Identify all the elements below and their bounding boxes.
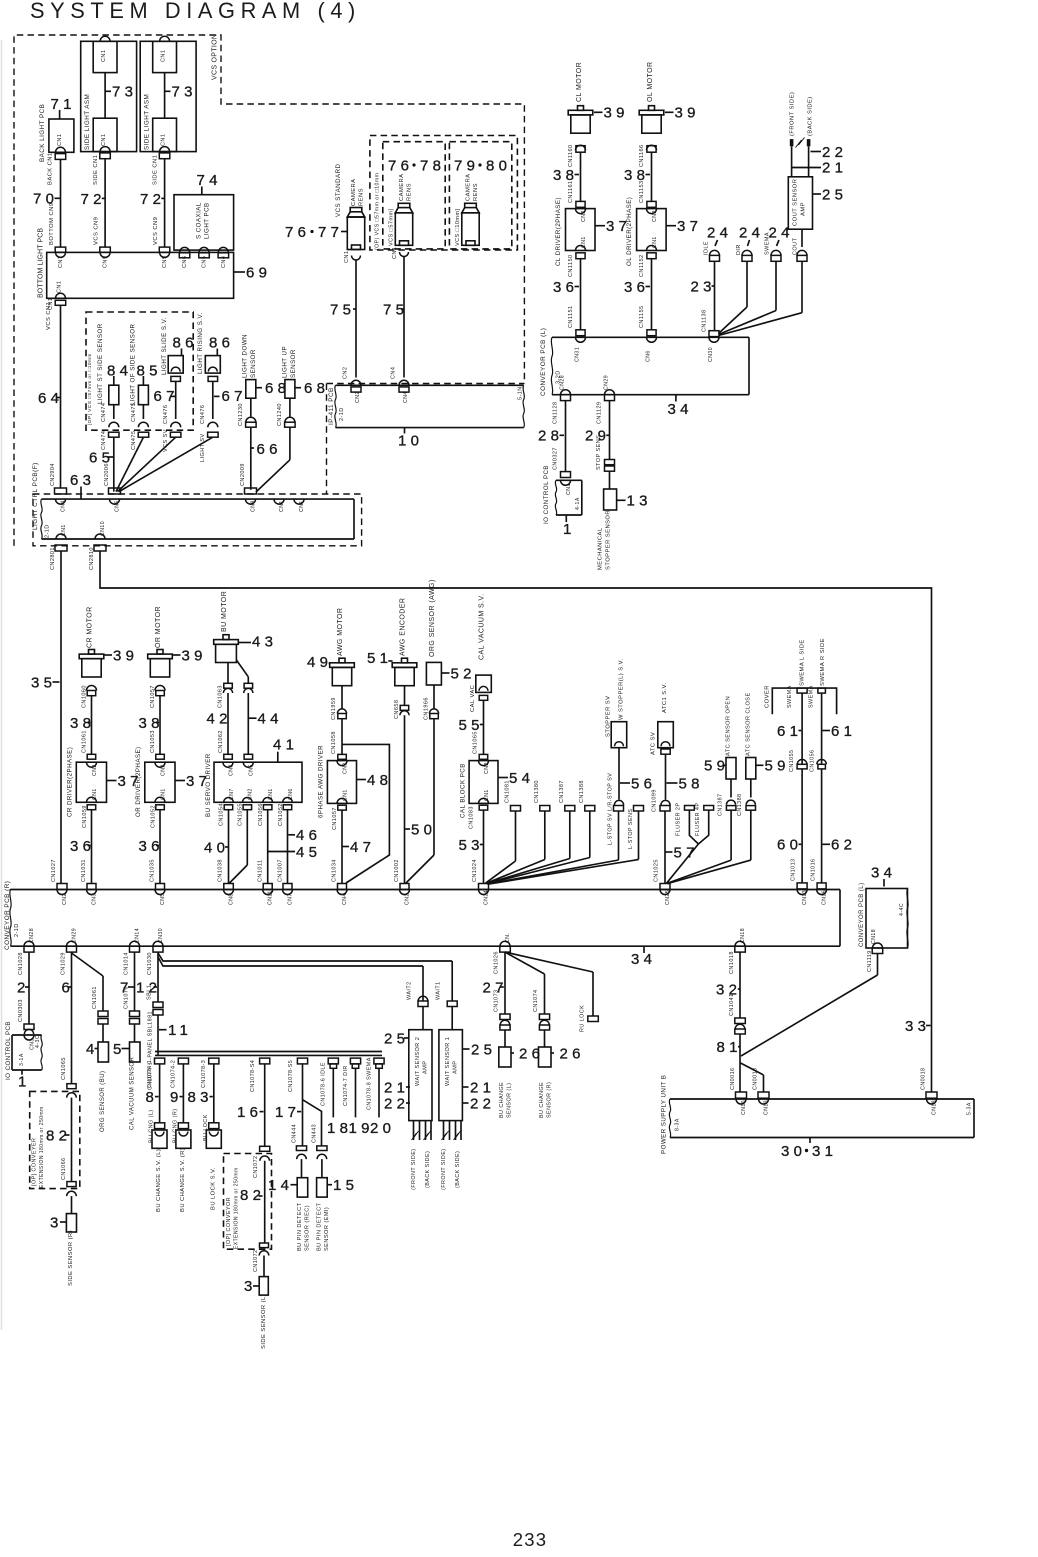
svg-text:CAL VACUUM SENSOR: CAL VACUUM SENSOR [130,1056,136,1130]
svg-text:(BACK SIDE): (BACK SIDE) [425,1151,431,1188]
svg-text:24: 24 [739,224,764,241]
wire CN30 down to SBL connector [157,952,159,1002]
svg-text:RENS: RENS [473,183,479,201]
dashed box cameras option [370,136,518,251]
dashed vertical to light ctrl box [326,384,328,495]
wire cal vacuum to cal block [483,700,485,754]
svg-text:ORG SENSOR (AWG): ORG SENSOR (AWG) [429,579,436,657]
wire camera2 to IP-411 [403,257,405,378]
connector CN1153 [647,201,656,207]
svg-text:CN5: CN5 [114,500,120,512]
svg-text:CN1054: CN1054 [219,803,225,826]
connector CN1057b [338,805,347,810]
svg-text:(FRONT SIDE): (FRONT SIDE) [411,1148,417,1190]
svg-text:73: 73 [112,84,137,101]
svg-text:CONVEYOR PCB (R): CONVEYOR PCB (R) [4,881,11,950]
svg-text:3: 3 [50,1214,63,1231]
svg-text:2-1D: 2-1D [45,524,51,538]
svg-text:55: 55 [459,717,484,734]
svg-text:L-STOP SENS: L-STOP SENS [628,809,634,849]
svg-text:CN475: CN475 [131,403,137,422]
svg-text:CN0018: CN0018 [920,1068,926,1090]
svg-text:11: 11 [168,1022,192,1039]
dashed box around LIGHT CTRL PCB [33,494,362,546]
svg-text:CN5: CN5 [160,893,166,905]
wire S4 down to CN1072 [264,1064,266,1146]
svg-text:CN474: CN474 [101,403,107,422]
BU SERVO DRIVER box [223,762,233,767]
side light asm box 1 [81,41,137,151]
WAIT SENSOR 2 AMP box [409,1030,432,1121]
svg-text:CN2: CN2 [652,210,658,222]
wires BU servo to conveyor [228,810,230,884]
svg-text:BOTTOM LIGHT PCB: BOTTOM LIGHT PCB [38,228,45,298]
svg-text:CN7: CN7 [229,788,235,800]
svg-text:26: 26 [560,1045,585,1062]
6PHASE AWG DRIVER box [337,761,347,766]
svg-text:CN1053: CN1053 [150,730,156,753]
svg-text:CN1: CN1 [57,134,63,146]
svg-text:53: 53 [459,837,484,854]
wire bus to WAIT1 [451,961,453,1001]
svg-text:WAIT SENSOR 1: WAIT SENSOR 1 [445,1037,451,1086]
light rising sv 86 [205,356,220,374]
svg-text:233: 233 [513,1529,547,1550]
svg-text:1: 1 [563,521,576,538]
svg-text:CN1072: CN1072 [253,1250,259,1272]
IO control pcb box (lower) [41,1035,42,1070]
svg-text:76: 76 [388,157,413,174]
svg-text:CN4: CN4 [403,391,409,403]
connector CN1027 on conveyor [57,884,67,890]
svg-text:CN1028: CN1028 [18,952,24,975]
connector CN2006 [109,488,121,494]
svg-text:[OP] CONVEYER: [OP] CONVEYER [31,1138,37,1186]
svg-text:59: 59 [765,758,790,775]
svg-text:2: 2 [17,979,30,996]
wire CN1018 to CN1041 [739,952,741,1018]
connector CN1160 [576,145,586,150]
svg-text:BU PIN DETECT: BU PIN DETECT [297,1202,303,1251]
svg-text:44: 44 [258,711,283,728]
svg-text:CN2: CN2 [404,893,410,905]
bu change sensor R 26 [539,1047,552,1067]
svg-text:CN1041: CN1041 [729,994,735,1016]
svg-text:CN2: CN2 [581,210,587,222]
svg-text:(FRONT SIDE): (FRONT SIDE) [790,92,796,136]
svg-text:4: 4 [86,1041,99,1058]
svg-text:CAMERA: CAMERA [399,173,405,201]
cout sensor tips [790,139,794,146]
svg-text:(BACK SIDE): (BACK SIDE) [808,96,814,136]
wait sensor 1 leads [443,1121,445,1140]
svg-text:2-1D: 2-1D [339,407,345,421]
svg-text:85: 85 [137,363,162,380]
WAIT SENSOR 1 AMP box [439,1030,463,1121]
dashed box conveyor extension 1 [30,1091,80,1188]
svg-text:41: 41 [273,736,298,753]
wire idle to CN1138 [714,261,716,330]
svg-text:CR MOTOR: CR MOTOR [87,606,94,648]
svg-text:SENSOR (REC): SENSOR (REC) [305,1205,311,1251]
wire to bu change sensor R [544,1030,546,1047]
svg-text:73: 73 [172,84,197,101]
svg-text:WAIT2: WAIT2 [406,981,412,1000]
svg-text:CN1002: CN1002 [394,859,400,882]
svg-text:CN.: CN. [505,933,511,943]
svg-text:CN1076: CN1076 [124,986,130,1009]
connector CN10 bottom light ctrl [95,534,105,539]
svg-text:IO CONTROL PCB: IO CONTROL PCB [5,1021,12,1080]
diagonal CN1026 to RU LOCK [505,952,593,972]
bus wires from CN30 to wait sensors [158,953,452,961]
svg-text:CN1966: CN1966 [424,697,430,720]
zigzag sensor tips wait [412,1131,419,1140]
svg-text:CAL VAC: CAL VAC [470,685,476,712]
connector CN18 conveyor R bottom [735,941,745,946]
svg-text:25: 25 [384,1030,409,1047]
OL driver box [647,209,657,214]
connector CN1074-3 [209,1058,219,1064]
connector CN1056 swema R [817,760,827,765]
callout 1 (lower io) [21,1070,23,1075]
connector CN1013 [797,883,807,889]
wire CN1128 to IO control pcb [565,401,567,472]
svg-text:CN7: CN7 [58,256,64,268]
svg-text:CN1052: CN1052 [278,803,284,826]
svg-text:38: 38 [139,715,164,732]
wire AWG motor to driver [341,719,343,755]
svg-text:CN1058: CN1058 [331,731,337,754]
wire inside extension 2 [264,1161,266,1243]
svg-text:BU PIN DETECT: BU PIN DETECT [317,1202,323,1251]
wire SBL to bus [157,1015,159,1055]
connector CN1152 [647,253,656,259]
svg-text:33: 33 [905,1018,930,1035]
hanging connector CN1388 [585,806,595,812]
wire cout up to amp [801,229,803,247]
wire CN1014 down [134,952,136,1011]
svg-text:RENS: RENS [359,188,365,206]
svg-text:36: 36 [624,279,649,296]
svg-text:LIGHT ST SIDE SENSOR: LIGHT ST SIDE SENSOR [97,323,104,404]
svg-text:CN29: CN29 [71,928,77,943]
svg-text:CN1025: CN1025 [654,859,660,882]
svg-text:CN1081: CN1081 [505,780,511,803]
svg-text:(FRONT SIDE): (FRONT SIDE) [441,1148,447,1190]
svg-text:CN1078-S4: CN1078-S4 [250,1060,256,1092]
svg-text:CN1959: CN1959 [331,697,337,720]
svg-text:W STOPPER(L) S.V.: W STOPPER(L) S.V. [619,659,625,720]
connector CN1074-1 [155,1058,165,1064]
svg-text:CN2: CN2 [342,762,348,774]
atc sv solenoid 58 [658,722,674,748]
wire motor to driver [91,696,93,755]
wire to side sensor R [71,1196,73,1214]
svg-text:CN31: CN31 [574,347,580,362]
svg-text:CN28: CN28 [29,928,35,943]
svg-text:CN6: CN6 [645,350,651,362]
wire org sensor to CN1002 [433,719,435,855]
connector CN2009 [245,488,257,494]
wire swema to CN1138 [775,261,777,310]
bu pin detect sensor EMI 15 [317,1178,328,1197]
svg-text:77: 77 [318,224,343,241]
svg-text:CN1: CN1 [279,500,285,512]
connector CN29 [605,390,615,395]
svg-text:CN1153: CN1153 [639,181,645,203]
svg-text:67: 67 [222,388,247,405]
connector CN28 bottom [24,941,34,946]
svg-text:BU LOCK: BU LOCK [203,1114,209,1141]
svg-text:SWEMA: SWEMA [765,232,771,255]
connector STOP SENS [605,460,615,465]
svg-text:CN1031: CN1031 [81,859,87,882]
wire swema L to conveyor [801,769,803,883]
svg-text:CN2: CN2 [248,788,254,800]
svg-text:CN1060: CN1060 [82,685,88,708]
svg-text:83: 83 [188,1089,213,1106]
camera 57mm option [398,203,410,207]
svg-text:22: 22 [470,1095,495,1112]
connector CN1066 [67,1182,76,1187]
svg-text:72: 72 [140,191,165,208]
svg-text:CN1150: CN1150 [568,255,574,277]
svg-text:CN24: CN24 [483,890,489,905]
svg-text:CN443: CN443 [311,1124,317,1143]
svg-text:CN6: CN6 [182,256,188,268]
svg-text:6: 6 [62,979,75,996]
camera 10mm option [465,203,477,207]
svg-text:OR DRIVER(2PHASE): OR DRIVER(2PHASE) [135,746,142,817]
svg-text:CN2009: CN2009 [240,463,246,486]
org sensor BU component 4 [98,1042,109,1062]
svg-text:CN1065: CN1065 [61,1057,67,1080]
wire inside side light asm 2 [164,73,166,119]
svg-text:CN1065: CN1065 [473,731,479,754]
wire atc sv down [665,754,667,799]
connector CN1076 [130,1011,140,1017]
svg-text:STOPPER SENSOR: STOPPER SENSOR [606,510,612,570]
svg-text:CN1052: CN1052 [151,805,157,828]
svg-text:4-1A: 4-1A [575,497,581,510]
fluser wires join to CN1025 [689,810,698,844]
svg-text:5-3A: 5-3A [966,1102,972,1115]
svg-text:24: 24 [707,224,732,241]
AWG motor [339,658,345,663]
svg-text:CN7: CN7 [287,893,293,905]
connector CN1078-6 IDLE [328,1058,338,1064]
connector WAIT2 [418,996,428,1001]
svg-text:42: 42 [207,711,232,728]
connector WAIT1 [447,1001,457,1007]
svg-text:CN1138: CN1138 [702,310,708,332]
svg-text:39: 39 [182,647,207,664]
connector CN1034 [338,884,347,890]
dashed box conveyor extension 2 [224,1154,272,1250]
svg-text:20: 20 [370,1120,395,1137]
svg-text:CN1128: CN1128 [553,402,559,424]
wire motor to driver [159,696,161,755]
svg-text:(OP) VCS □57mm or □10mm: (OP) VCS □57mm or □10mm [374,173,380,250]
svg-text:CN1078-8 SWEMA: CN1078-8 SWEMA [366,1057,372,1110]
wire side light 2 down [164,159,166,247]
svg-text:61: 61 [777,723,802,740]
svg-text:CN474: CN474 [101,431,107,450]
svg-text:36: 36 [139,838,164,855]
svg-text:CN1387: CN1387 [559,780,565,803]
svg-text:VCS □10mm]: VCS □10mm] [455,209,461,246]
connector CN1074-2 [178,1058,188,1064]
connector CN1240 [289,398,291,416]
svg-text:15: 15 [333,1177,358,1194]
svg-text:CN30: CN30 [708,347,714,362]
svg-text:SBL1: SBL1 [147,985,153,1000]
wire camera1 to IP-411 [355,260,357,378]
wire bus to WAIT2 [422,966,424,1001]
wire inside extension 1 [71,1098,73,1182]
svg-text:71: 71 [51,96,76,113]
svg-text:5: 5 [113,1041,126,1058]
svg-text:39: 39 [675,105,700,122]
connector CN1060 [87,686,97,691]
connector CN1 camera1 [352,256,361,261]
svg-text:OL DRIVER(2PHASE): OL DRIVER(2PHASE) [626,197,633,266]
svg-text:CN476: CN476 [163,405,169,424]
svg-text:AWG ENCODER: AWG ENCODER [400,598,407,656]
svg-text:39: 39 [113,647,138,664]
svg-text:CN1: CN1 [652,236,658,248]
atc sensor open 59 [726,758,736,780]
svg-text:SENSOR (L): SENSOR (L) [506,1083,512,1118]
svg-text:64: 64 [38,390,63,407]
svg-text:86: 86 [173,334,198,351]
svg-text:(BACK SIDE): (BACK SIDE) [455,1151,461,1188]
connector bu change R plug [178,1123,188,1129]
svg-text:CN9: CN9 [162,256,168,268]
svg-text:CN1078-S5: CN1078-S5 [288,1060,294,1092]
callout 1 (upper io) [565,515,567,522]
connectors below BU servo driver [224,805,233,810]
svg-text:CN8: CN8 [250,500,256,512]
wire atc close to CN1025 [750,810,752,860]
wire CN1129 to stop sensor [609,401,611,460]
svg-text:CAL VACUUM S.V.: CAL VACUUM S.V. [479,594,486,660]
connector CN1072 lower [260,1243,269,1248]
svg-text:VCS CN9: VCS CN9 [153,217,159,245]
svg-text:CN658: CN658 [394,700,400,719]
svg-text:LIGHT DOWN: LIGHT DOWN [242,334,249,378]
svg-text:39: 39 [604,105,629,122]
svg-text:CAMERA: CAMERA [351,178,357,206]
svg-text:LIGHT RISING S.V.: LIGHT RISING S.V. [197,312,204,374]
connector CN0327 [561,472,571,478]
svg-text:1: 1 [18,1073,31,1090]
wire CN443 to bu pin detect emi [321,1159,323,1178]
svg-text:51: 51 [367,650,392,667]
svg-text:31: 31 [812,1143,837,1160]
svg-text:22: 22 [822,144,847,161]
svg-text:CN0016: CN0016 [730,1068,736,1090]
connector CN1024 [479,884,489,890]
wire OL motor to driver [651,152,653,201]
connector atc close [750,779,752,798]
svg-text:CN1: CN1 [101,50,107,62]
wire OL driver to conveyor L [651,259,653,330]
svg-text:SIDE CN1: SIDE CN1 [93,155,99,185]
svg-text:79: 79 [454,157,479,174]
svg-text:CN1026: CN1026 [494,951,500,974]
svg-text:CAMERA: CAMERA [466,173,472,201]
svg-text:CN2: CN2 [92,764,98,776]
svg-text:RU LOCK: RU LOCK [579,1005,585,1032]
svg-text:VCS OPTION: VCS OPTION [212,34,219,80]
connector CN658 [404,686,406,706]
connector CN1011 [263,884,272,890]
connector CN1151 [576,330,585,336]
wire cout to CN1138 [801,261,803,312]
connector CN1065b [244,754,253,759]
side sensor L component 3 [259,1277,268,1296]
svg-text:CN29: CN29 [603,375,609,390]
svg-text:CN475: CN475 [131,431,137,450]
connector CN0018 [926,1092,937,1098]
light slide sv 86 [168,356,183,374]
OL motor [649,106,655,111]
svg-text:50: 50 [411,821,436,838]
svg-text:BACK LIGHT PCB: BACK LIGHT PCB [39,104,46,162]
BU motor right leg diagonal [236,660,248,677]
svg-text:CN1024: CN1024 [472,859,478,882]
svg-text:59: 59 [704,758,729,775]
svg-text:CN1387: CN1387 [717,794,723,816]
connector CN1025 [660,884,670,890]
connector CN1072 upper [260,1146,270,1151]
svg-text:S COAXIAL: S COAXIAL [196,202,203,239]
svg-text:34: 34 [668,401,693,418]
CAL BLOCK PCB box [479,761,489,766]
AWG loop wire to CN1034 [342,744,389,883]
svg-text:FLUSER 4P: FLUSER 4P [695,803,701,836]
connector CN476 slide [175,381,177,419]
svg-text:[OP] CONVEYOR: [OP] CONVEYOR [226,1197,232,1246]
connector CN1138 [709,331,719,337]
connector right leg [244,683,253,688]
svg-text:CN1: CN1 [92,788,98,800]
svg-text:81: 81 [717,1039,742,1056]
wire CL motor to driver [580,152,582,201]
svg-text:CN2: CN2 [160,764,166,776]
svg-text:BU CHANGE: BU CHANGE [539,1082,545,1118]
wire CN1041 to power supply CN0016 [739,1034,741,1092]
svg-text:14: 14 [268,1177,293,1194]
svg-text:CN14: CN14 [134,928,140,943]
svg-text:CN1063: CN1063 [218,685,224,708]
wire driver to conveyor [159,810,161,884]
svg-text:SENSOR: SENSOR [250,349,257,378]
svg-text:10: 10 [398,433,423,450]
svg-text:46: 46 [296,827,321,844]
connector CN top asm2 [160,36,170,41]
connector SBL1881 [153,1002,163,1008]
COUT SENSOR AMP box 25 [788,177,812,229]
bottom light pcb box 69 [47,252,234,298]
connector CN1230 [250,398,252,416]
svg-text:CN2810: CN2810 [89,547,95,570]
back light pcb box [49,119,74,152]
connector CN118 below conveyor L [873,943,883,948]
svg-text:8: 8 [146,1089,159,1106]
